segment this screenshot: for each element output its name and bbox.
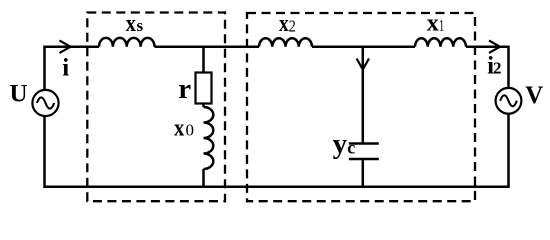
svg-text:s: s xyxy=(137,16,144,35)
resistor r xyxy=(196,73,212,104)
wire resistor branch top lead xyxy=(202,47,205,73)
dashed box 1 (series impedance r + x0 section) xyxy=(87,13,225,202)
wire capacitor branch upper lead xyxy=(362,47,365,144)
svg-text:i: i xyxy=(62,55,69,82)
dashed box 2 (pi-section x2, yc, x1) xyxy=(247,13,475,201)
wire x0 coil bottom lead xyxy=(202,169,205,187)
wire between x2 coil and x1 coil xyxy=(312,45,415,48)
inductor X1 xyxy=(415,38,466,46)
voltage source V circle xyxy=(496,88,522,114)
wire capacitor branch lower lead xyxy=(362,159,365,187)
svg-text:x: x xyxy=(174,115,184,141)
wire from x1 coil, corner down to V xyxy=(466,47,509,89)
svg-text:y: y xyxy=(333,128,348,160)
voltage source U circle xyxy=(32,90,58,116)
arrow current i (right-pointing on left wire) xyxy=(60,41,71,53)
svg-text:c: c xyxy=(347,138,355,158)
svg-text:x: x xyxy=(126,11,136,37)
wire top-left horizontal from source to xs coil, corner down to U xyxy=(45,47,100,91)
wire between xs coil and x2 coil xyxy=(155,45,260,48)
arrow shunt current (down-pointing above capacitor) xyxy=(357,59,369,70)
inductor Xs xyxy=(99,38,155,47)
sine wave inside U xyxy=(37,97,54,108)
wire between resistor and x0 coil xyxy=(202,104,205,108)
svg-text:r: r xyxy=(178,73,191,105)
svg-text:U: U xyxy=(10,81,28,108)
capacitor Yc bottom plate xyxy=(349,158,379,161)
capacitor Yc top plate xyxy=(349,142,379,145)
svg-text:2: 2 xyxy=(289,16,296,35)
svg-text:2: 2 xyxy=(493,59,502,78)
svg-text:x: x xyxy=(427,11,439,37)
sine wave inside V xyxy=(500,95,517,106)
svg-text:V: V xyxy=(525,82,543,109)
svg-text:x: x xyxy=(279,11,289,37)
arrow current i2 (right-pointing near V) xyxy=(489,41,500,53)
svg-text:1: 1 xyxy=(439,16,444,35)
inductor X0 (vertical) xyxy=(204,107,214,169)
svg-text:0: 0 xyxy=(186,121,195,140)
inductor X2 xyxy=(259,38,312,46)
wire bottom loop: U bottom lead, bottom rail, V bottom lead xyxy=(45,113,509,187)
